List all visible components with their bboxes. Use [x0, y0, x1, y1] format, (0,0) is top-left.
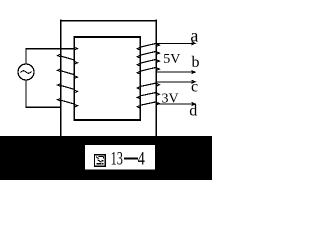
svg-text:4: 4 [138, 149, 146, 170]
caption white box [85, 145, 155, 170]
secondary coil upper section slants [141, 43, 156, 71]
bottom black band [0, 136, 212, 180]
terminal line b [157, 71, 196, 74]
AC source sine symbol [21, 71, 32, 74]
secondary coil upper left bumps [137, 47, 140, 74]
transformer core outer rectangle (open at bottom, sides run into band) [60, 20, 157, 137]
secondary coil lower right bumps [156, 83, 159, 105]
svg-text:13: 13 [111, 149, 123, 170]
primary coil slant turns [61, 56, 75, 104]
wire: source bottom to primary coil bottom [26, 80, 60, 107]
svg-text:3V: 3V [162, 92, 179, 107]
terminal line d [157, 103, 196, 106]
primary coil left bumps [58, 54, 62, 101]
svg-text:a: a [190, 25, 198, 45]
svg-text:c: c [191, 79, 198, 96]
secondary coil lower section slants [141, 83, 156, 105]
svg-text:5V: 5V [163, 52, 180, 67]
AC source G1 circle [18, 64, 34, 80]
secondary coil upper right bumps [156, 44, 159, 71]
wire: source top to primary coil top [26, 49, 75, 64]
secondary coil lower left bumps [137, 87, 140, 109]
primary coil right bumps [74, 47, 78, 107]
transformer core inner rectangle [74, 36, 142, 120]
terminal line c [157, 80, 196, 83]
svg-text:d: d [189, 103, 197, 120]
svg-text:b: b [192, 54, 200, 71]
caption dash [124, 157, 138, 159]
caption hanzi TU (drawn glyph) [95, 155, 106, 167]
terminal line a [157, 42, 196, 45]
